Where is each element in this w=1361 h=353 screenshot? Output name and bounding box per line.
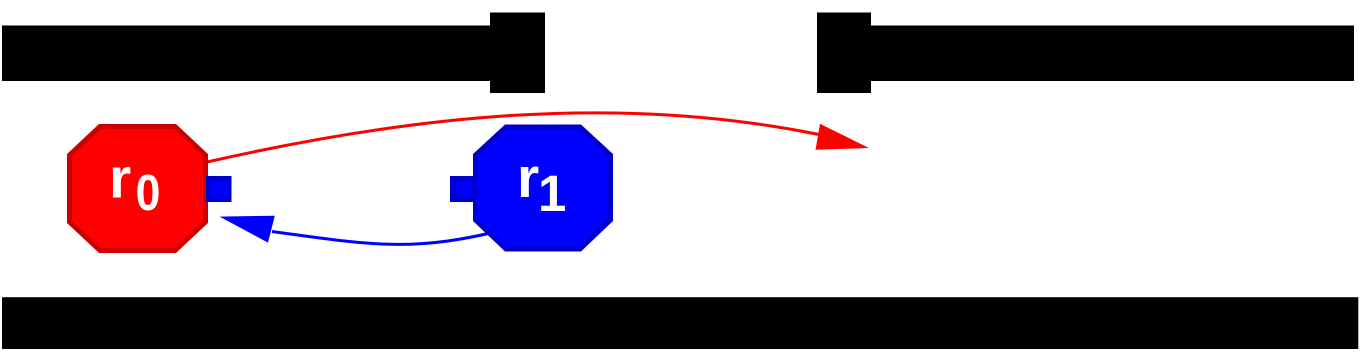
wall top-right horizontal bar xyxy=(871,26,1354,82)
wall bottom bar xyxy=(2,297,1358,349)
svg-text:0: 0 xyxy=(136,164,161,221)
svg-text:1: 1 xyxy=(538,165,566,222)
gripper square of r1 xyxy=(450,176,475,202)
red arrowhead xyxy=(816,124,870,150)
wall top-left end block xyxy=(490,13,545,94)
blue arrowhead xyxy=(220,216,275,243)
wall top-right end block xyxy=(817,13,871,94)
blue edge curve from r1 to r0 xyxy=(272,229,507,244)
gripper square of r0 xyxy=(206,176,232,202)
svg-text:r: r xyxy=(517,146,539,210)
robot r0 red octagon xyxy=(67,124,208,253)
robot r1 blue octagon xyxy=(473,125,613,252)
red edge curve from r0 to right xyxy=(207,113,819,162)
svg-text:r: r xyxy=(109,147,131,211)
wall top-left horizontal bar xyxy=(2,26,490,82)
